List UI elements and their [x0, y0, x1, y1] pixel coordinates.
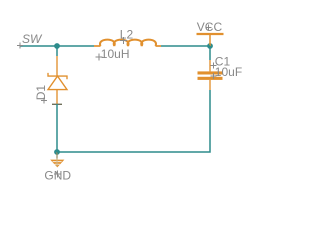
wire SW to junction A	[20, 45, 94, 47]
inductor L2	[94, 40, 161, 46]
wire capacitor to junction C	[209, 46, 211, 60]
svg-text:10uH: 10uH	[101, 47, 130, 61]
junction A	[54, 43, 60, 49]
wire inductor right to junction C	[161, 45, 210, 47]
diode D1 (Schottky)	[48, 56, 67, 104]
pin 2 anode lead	[56, 90, 58, 104]
label C1 anchor	[211, 63, 217, 69]
label L2 anchor	[120, 37, 127, 44]
svg-text:GND: GND	[44, 169, 71, 183]
cathode bar with schottky hooks	[48, 73, 67, 79]
label 10uF anchor	[211, 73, 217, 79]
wire diode to junction B	[56, 104, 58, 152]
svg-text:10uF: 10uF	[215, 65, 242, 79]
svg-text:D1: D1	[34, 85, 48, 101]
power flag VCC	[197, 34, 224, 46]
capacitor C1	[198, 60, 223, 90]
label 10uH anchor	[96, 54, 103, 61]
label VCC anchor	[206, 25, 212, 31]
junction C	[207, 43, 213, 49]
label GND anchor	[54, 171, 61, 178]
label SW anchor	[17, 43, 23, 49]
diode anchor cross at pin 2	[52, 103, 62, 105]
svg-text:SW: SW	[22, 32, 43, 46]
svg-text:L2: L2	[120, 28, 134, 42]
anode triangle	[48, 76, 67, 90]
wire bottom rail and right rail	[57, 90, 210, 152]
junction B	[54, 149, 60, 155]
wire junction A down to diode	[56, 46, 58, 56]
ground GND symbol	[50, 152, 64, 167]
label D1 anchor	[41, 98, 47, 104]
pin 1 cathode lead	[56, 56, 58, 76]
svg-text:VCC: VCC	[197, 20, 223, 34]
